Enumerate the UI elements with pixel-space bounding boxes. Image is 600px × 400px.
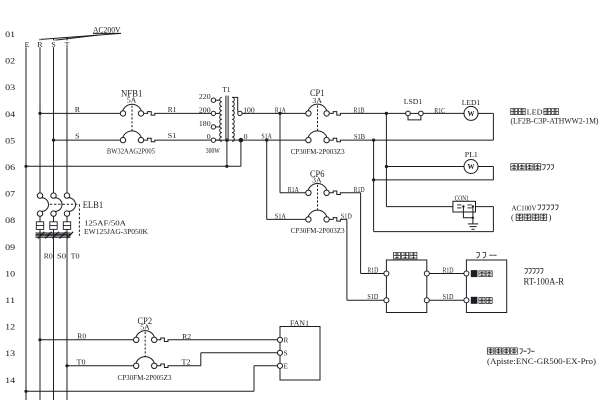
svg-text:200: 200	[199, 106, 211, 115]
svg-text:FAN1: FAN1	[290, 318, 309, 327]
svg-text:S: S	[284, 349, 288, 357]
svg-text:RT-100A-R: RT-100A-R	[524, 277, 565, 288]
svg-text:W: W	[468, 110, 475, 118]
svg-text:(: (	[511, 212, 514, 222]
svg-text:S: S	[51, 40, 55, 49]
svg-text:LED1: LED1	[462, 98, 481, 107]
svg-text:CP30FM-2P003Z3: CP30FM-2P003Z3	[291, 147, 345, 156]
svg-text:E: E	[25, 40, 30, 49]
svg-text:220: 220	[199, 92, 211, 101]
svg-text:R: R	[75, 105, 81, 114]
svg-text:(Apiste:ENC-GR500-EX-Pro): (Apiste:ENC-GR500-EX-Pro)	[487, 356, 596, 366]
svg-text:03: 03	[5, 83, 15, 92]
svg-text:CON1: CON1	[455, 193, 470, 202]
svg-text:R0: R0	[44, 252, 53, 261]
svg-text:07: 07	[5, 190, 15, 199]
svg-text:3A: 3A	[312, 176, 322, 185]
svg-text:S: S	[75, 132, 79, 141]
svg-text:S1A: S1A	[275, 212, 286, 221]
svg-text:T0: T0	[71, 252, 80, 261]
svg-text:AC100V: AC100V	[512, 203, 537, 212]
svg-text:05: 05	[5, 136, 15, 145]
svg-text:01: 01	[5, 30, 15, 39]
svg-text:13: 13	[5, 349, 15, 358]
svg-text:S1B: S1B	[354, 132, 365, 141]
svg-text:S1D: S1D	[443, 292, 454, 301]
svg-text:S1D: S1D	[341, 211, 352, 220]
svg-text:11: 11	[5, 296, 15, 305]
svg-text:LED: LED	[527, 108, 543, 117]
svg-text:R1A: R1A	[288, 185, 299, 194]
svg-text:S1A: S1A	[261, 132, 272, 141]
svg-text:10: 10	[5, 269, 15, 278]
svg-text:S1: S1	[168, 131, 177, 140]
svg-text:08: 08	[5, 216, 15, 225]
svg-text:T1: T1	[222, 85, 231, 94]
svg-text:W: W	[468, 163, 475, 171]
svg-text:R1: R1	[168, 105, 177, 114]
svg-text:3A: 3A	[312, 96, 322, 105]
svg-text:0: 0	[244, 132, 248, 141]
svg-text:(LF2B-C3P-ATHWW2-1M): (LF2B-C3P-ATHWW2-1M)	[511, 117, 599, 126]
svg-text:R0: R0	[77, 331, 86, 340]
svg-text:R1C: R1C	[434, 106, 445, 115]
svg-text:T2: T2	[182, 358, 191, 367]
svg-text:0: 0	[207, 132, 211, 141]
svg-text:R: R	[284, 336, 289, 344]
svg-text:R1D: R1D	[354, 185, 365, 194]
svg-text:09: 09	[5, 243, 15, 252]
svg-text:PL1: PL1	[465, 150, 478, 159]
svg-text:14: 14	[5, 376, 15, 385]
svg-text:06: 06	[5, 163, 15, 172]
svg-text:100: 100	[243, 106, 255, 115]
svg-text:R1B: R1B	[354, 105, 365, 114]
svg-text:CP30FM-2P005Z3: CP30FM-2P005Z3	[118, 373, 172, 382]
svg-text:S0: S0	[57, 252, 66, 261]
svg-text:E: E	[284, 362, 288, 370]
svg-text:ELB1: ELB1	[83, 200, 104, 211]
svg-text:T0: T0	[77, 357, 86, 366]
svg-text:S1D: S1D	[367, 292, 378, 301]
svg-text:5A: 5A	[140, 323, 150, 332]
svg-text:300W: 300W	[206, 146, 220, 155]
svg-text:5A: 5A	[127, 96, 137, 105]
svg-text:180: 180	[199, 119, 211, 128]
svg-text:AC200V: AC200V	[93, 26, 121, 35]
svg-text:BW32AAG2P005: BW32AAG2P005	[107, 147, 155, 156]
svg-text:12: 12	[5, 323, 15, 332]
svg-text:R1D: R1D	[443, 266, 454, 275]
svg-text:02: 02	[5, 57, 15, 66]
svg-text:R: R	[37, 40, 43, 49]
svg-text:CP30FM-2P003Z3: CP30FM-2P003Z3	[291, 226, 345, 235]
svg-text:R2: R2	[182, 332, 191, 341]
svg-text:R1A: R1A	[275, 105, 286, 114]
svg-text:LSD1: LSD1	[404, 97, 423, 106]
svg-text:T: T	[65, 40, 70, 49]
svg-text:): )	[549, 212, 552, 222]
svg-text:04: 04	[5, 110, 15, 119]
svg-text:EW125JAG-3P050K: EW125JAG-3P050K	[84, 227, 148, 236]
svg-text:R1D: R1D	[367, 266, 378, 275]
